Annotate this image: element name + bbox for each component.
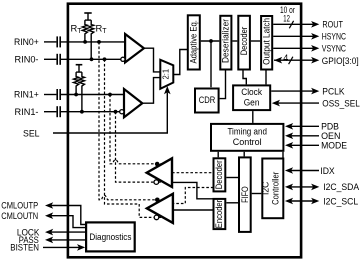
dashed Decoder2 to lower CML base <box>173 188 214 204</box>
capacitor C RIN0- <box>56 54 58 65</box>
main chip box <box>68 4 301 258</box>
arrow PDB <box>285 123 293 130</box>
svg-text:Deserializer: Deserializer <box>221 19 231 63</box>
wire RIN1- lead <box>44 111 56 113</box>
arrow I2C_SDA out <box>311 184 319 191</box>
block Adaptive Eq <box>188 15 200 69</box>
block Encoder <box>214 199 226 229</box>
arrow OSS_SEL <box>272 100 280 107</box>
block Output Latch <box>261 16 272 70</box>
svg-text:RIN0-: RIN0- <box>15 54 39 65</box>
wire IDX <box>291 170 320 172</box>
svg-text:GPIO[3:0]: GPIO[3:0] <box>322 55 359 66</box>
svg-text:CMLOUTN: CMLOUTN <box>1 210 38 221</box>
CML driver upper <box>147 158 172 187</box>
block Deserializer <box>220 16 231 70</box>
wire GPIO <box>274 59 314 61</box>
arrow I2C_SCL in <box>285 198 293 205</box>
svg-text:Controller: Controller <box>270 172 280 205</box>
wire Decoder to Clock Gen <box>243 71 246 85</box>
svg-text:4: 4 <box>283 53 288 63</box>
wire OEN <box>291 135 320 137</box>
svg-text:RIN1-: RIN1- <box>15 106 39 117</box>
svg-text:Decoder: Decoder <box>239 27 249 56</box>
arrow I2C_SDA in <box>285 184 293 191</box>
block Timing and Control <box>211 124 283 151</box>
arrow PASS <box>45 237 53 244</box>
wire Deserializer to Decoder <box>232 40 237 42</box>
svg-text:HSYNC: HSYNC <box>322 31 346 42</box>
wire Encoder to FIFO <box>226 202 238 204</box>
wire RIN0- lead <box>44 58 56 60</box>
wire TC to I2C <box>282 152 284 158</box>
resistor right <box>79 72 84 112</box>
bus slash GPIO <box>289 57 293 64</box>
wire CMLOUTN <box>50 216 86 228</box>
wire TC to FIFO <box>243 152 245 157</box>
capacitor C RIN1- <box>56 106 58 117</box>
arrow CMLOUTP <box>45 202 53 209</box>
svg-text:BISTEN: BISTEN <box>10 242 39 253</box>
wire RIN1+ to comparator <box>61 94 124 96</box>
mux 2:1 <box>160 60 173 89</box>
wire Deserializer to CDR <box>220 71 226 99</box>
block I2C Controller <box>262 159 283 219</box>
arrow HSYNC <box>311 33 319 40</box>
svg-text:IDX: IDX <box>320 165 335 176</box>
arrow I2C_SCL out <box>311 198 319 205</box>
wire TC to Decoder2 <box>217 152 219 158</box>
wire LOCK <box>50 231 86 233</box>
wire VSYNC <box>273 47 314 49</box>
resistor RT left <box>82 20 87 42</box>
block Diagnostics <box>86 222 135 251</box>
svg-text:I2C_SDA: I2C_SDA <box>323 181 360 192</box>
svg-text:Control: Control <box>233 137 262 147</box>
comparator A1 (RIN0) <box>125 34 144 62</box>
svg-text:FIFO: FIFO <box>240 186 250 203</box>
arrow ROUT <box>311 21 319 28</box>
RT top tie bar <box>85 19 91 21</box>
dashed tap RIN1- to upper CML bubble <box>116 112 163 182</box>
dashed upper CML base to Decoder2 <box>172 172 214 174</box>
wire Decoder to Output Latch <box>251 40 260 42</box>
svg-text:Decoder: Decoder <box>214 160 224 189</box>
svg-text:OSS_SEL: OSS_SEL <box>322 97 360 108</box>
arrow VSYNC <box>311 45 319 52</box>
svg-text:Encoder: Encoder <box>214 200 224 228</box>
wire PDB <box>291 125 320 127</box>
wire upper CML base to Encoder <box>172 182 214 198</box>
wire OSS_SEL <box>277 102 319 104</box>
wire Output Latch to Clock Gen <box>265 71 267 85</box>
wire I2C_SDA <box>291 186 315 188</box>
svg-text:Timing and: Timing and <box>227 127 267 137</box>
block Decoder (top) <box>238 16 250 70</box>
wire comparator A2 output to mux <box>142 78 160 104</box>
wire node to CDR <box>210 41 212 87</box>
bus slash ROUT <box>289 21 293 29</box>
wire Adaptive Eq to Deserializer <box>201 40 220 42</box>
svg-text:I2C: I2C <box>261 181 271 195</box>
arrow MODE <box>285 142 293 149</box>
svg-text:Gen: Gen <box>244 97 260 107</box>
svg-text:Output Latch: Output Latch <box>262 18 272 65</box>
wire lower CML base to Encoder <box>173 209 214 211</box>
svg-text:I2C_SCL: I2C_SCL <box>323 195 358 206</box>
block CDR <box>195 89 219 113</box>
svg-text:12: 12 <box>283 14 290 24</box>
wire FIFO to I2C <box>252 193 262 195</box>
dashed tap RIN0- to lower CML bubble <box>105 59 164 217</box>
wire PASS <box>50 239 86 241</box>
arrow IDX <box>285 167 293 174</box>
capacitor C RIN0+ <box>56 36 58 47</box>
wire RIN1+ lead <box>44 94 56 96</box>
arrow CMLOUTN <box>45 212 53 219</box>
wire ROUT <box>273 23 314 25</box>
arrow BISTEN into Diagnostics <box>77 244 85 251</box>
wire HSYNC <box>273 35 314 37</box>
wire SEL <box>53 93 167 134</box>
arrow PCLK <box>311 88 319 95</box>
svg-text:PCLK: PCLK <box>322 85 345 96</box>
tie bar <box>76 71 82 73</box>
svg-text:2:1: 2:1 <box>162 68 171 79</box>
resistor RT right <box>89 20 94 59</box>
dashed tap RIN0+ to lower CML <box>99 42 214 218</box>
svg-text:CDR: CDR <box>199 95 216 105</box>
block Clock Gen <box>233 85 270 110</box>
junction dots <box>74 39 213 202</box>
comparator A2 (RIN1) <box>124 89 142 117</box>
wire Decoder2 to FIFO <box>226 177 238 179</box>
svg-text:RIN0+: RIN0+ <box>14 36 39 47</box>
svg-text:MODE: MODE <box>321 140 347 151</box>
dashed tap RIN1+ to upper CML <box>110 95 163 164</box>
svg-text:Adaptive Eq.: Adaptive Eq. <box>188 20 198 64</box>
arrow LOCK <box>45 229 53 236</box>
wire MODE <box>291 144 320 146</box>
svg-text:VSYNC: VSYNC <box>322 43 346 54</box>
capacitor C RIN1+ <box>56 89 58 100</box>
svg-text:Diagnostics: Diagnostics <box>89 232 132 242</box>
svg-text:Clock: Clock <box>241 87 262 97</box>
inverting bubbles <box>120 57 159 220</box>
wire PCLK <box>271 90 314 92</box>
CML driver lower <box>147 194 173 223</box>
block Decoder (lower) <box>214 158 226 191</box>
wire RIN1- to comparator bubble <box>61 111 120 113</box>
arrow SEL up into mux <box>164 86 171 94</box>
wire comparator A1 output to mux <box>144 48 160 72</box>
wire I2C_SCL <box>291 200 315 202</box>
arrow GPIO out <box>311 57 319 64</box>
wire Clock Gen to Timing and Control <box>252 111 254 123</box>
resistor left <box>74 72 79 94</box>
wire RIN0+ lead <box>44 41 56 43</box>
wire RIN0+ to comparator <box>61 41 125 43</box>
wire CMLOUTP <box>50 206 86 225</box>
wire mux output to Adaptive Eq <box>173 50 188 75</box>
arrow OEN <box>285 133 293 140</box>
svg-text:SEL: SEL <box>23 127 40 138</box>
svg-text:ROUT: ROUT <box>322 19 343 30</box>
wire RIN0- to comparator bubble <box>61 58 121 60</box>
arrow GPIO in <box>274 57 282 64</box>
svg-text:RIN1+: RIN1+ <box>14 89 39 100</box>
wire BISTEN <box>43 246 80 248</box>
block FIFO <box>239 157 251 232</box>
